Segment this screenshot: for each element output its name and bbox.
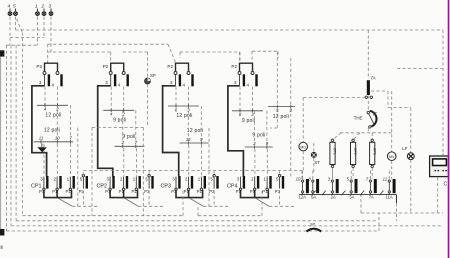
- rail y170 drop to fuse row: [301, 171, 303, 180]
- svg-text:2: 2: [122, 112, 126, 117]
- contact CP3 pole 2: [188, 177, 190, 189]
- bottom bus CP2: [110, 190, 137, 198]
- wire col down x44 group 1: [43, 144, 45, 177]
- wire pin5 column lower: [276, 108, 278, 128]
- bar TA: [367, 80, 370, 95]
- wire col up x201.3 group 3: [200, 106, 202, 141]
- fuse contact F3 (2A): [336, 179, 339, 193]
- enclosure right CP2: [142, 127, 144, 215]
- contact CP2 pole 3: [135, 177, 137, 189]
- contact circle bottom CP1 pole 1: [43, 188, 45, 190]
- LF cross b: [408, 154, 413, 159]
- dashed link y52 segment: [180, 51, 240, 53]
- wire col up x122.8 group 2: [122, 110, 124, 144]
- wire MO drop: [302, 98, 304, 143]
- wire TA right y91: [371, 90, 388, 92]
- wire diagonal to coil 2: [353, 133, 360, 140]
- bus rail y170 common: [83, 170, 302, 172]
- contact bar right unit 1: [60, 74, 62, 86]
- wire CP1 pole4 riser: [82, 171, 84, 176]
- terminal 3: [50, 9, 52, 12]
- wire link below CP1: [72, 205, 99, 207]
- contact circle bottom CP4 pole 1: [239, 188, 241, 190]
- blade between F4 and F5: [360, 191, 364, 196]
- enclosure top CP2: [92, 126, 143, 128]
- riser x438 to box: [437, 177, 439, 213]
- wire diagonal to coil 1: [333, 133, 341, 140]
- wire col down x136.5 group 2: [136, 148, 138, 176]
- svg-text:SP: SP: [150, 73, 156, 78]
- wire TA to THE: [367, 96, 369, 112]
- contact CP4 pole 2: [254, 177, 256, 189]
- THE pivot: [367, 111, 369, 113]
- contact circle top CP3 pole 4: [213, 175, 215, 177]
- contact circle right unit 2: [122, 72, 125, 75]
- enclosure vertical x183: [182, 190, 184, 216]
- enclosure vertical x262: [261, 190, 263, 216]
- contact circle right unit 4: [251, 72, 254, 75]
- bus y133 coils: [340, 132, 392, 134]
- top wire P2 unit 2: [111, 63, 124, 71]
- terminal 4: [9, 9, 11, 12]
- wire contact drop b unit 1: [57, 87, 59, 106]
- wire link below CP3: [203, 205, 230, 207]
- stub x180: [179, 52, 181, 58]
- LF cross a: [408, 154, 413, 159]
- wire fuse end down: [396, 203, 398, 221]
- enclosure vertical x78: [77, 128, 79, 207]
- svg-text:2: 2: [40, 3, 44, 9]
- svg-text:P1: P1: [132, 189, 138, 194]
- wire MV up: [391, 91, 393, 152]
- coil/resistor R3: [371, 139, 373, 141]
- wire LF up: [410, 108, 412, 153]
- left rail 4: [21, 33, 23, 216]
- wire contact drop a unit 3: [175, 87, 177, 107]
- wire SP rail lower: [147, 84, 149, 127]
- contact CP1 pole 1: [43, 177, 45, 189]
- fuse row baseline: [299, 194, 397, 196]
- connector box C: [430, 156, 449, 177]
- svg-text:P1: P1: [262, 189, 268, 194]
- bottom bus CP1: [44, 190, 72, 198]
- svg-text:C: C: [444, 182, 448, 188]
- contact CP4 pole 3: [266, 177, 268, 189]
- contact CP3 pole 3: [200, 177, 202, 189]
- bus y213 right: [361, 212, 443, 214]
- top wire P2 unit 4: [240, 63, 253, 71]
- svg-text:P2: P2: [167, 64, 173, 69]
- contact CP4 pole 1: [240, 177, 242, 189]
- wire link below CP4: [269, 205, 296, 207]
- wire terminal 1 drop: [37, 17, 39, 46]
- wire coil 3 down: [371, 168, 373, 179]
- wire MV down: [391, 161, 393, 179]
- wire col down x188.8 group 3: [188, 145, 190, 176]
- feed wire unit 2: [110, 52, 112, 63]
- contact stem left unit 2: [110, 75, 112, 86]
- bus bottom y221: [16, 220, 378, 222]
- svg-text:1: 1: [35, 3, 38, 9]
- contact circle bottom CP3 pole 1: [175, 188, 177, 190]
- fuse contact F5 (7A): [374, 179, 377, 193]
- indicator ST: [311, 152, 316, 157]
- wire pin3 unit 4 to CP4: [228, 86, 244, 176]
- blade between F2 and F3: [322, 191, 326, 196]
- contact CP1 pole 2: [56, 177, 58, 189]
- dashed link y51 segment: [252, 50, 278, 52]
- wire ST up: [313, 143, 315, 152]
- contact circle bottom CP2 pole 1: [109, 188, 111, 190]
- wire terminal 2 drop: [43, 17, 45, 38]
- bus y97 to TA: [303, 97, 365, 99]
- wire pin2 column lower: [290, 108, 292, 178]
- wire contact drop b unit 4: [252, 87, 254, 111]
- svg-text:5A: 5A: [349, 194, 354, 199]
- fuse contact F4 (5A): [355, 179, 358, 193]
- wire pole4 drop x214.1: [213, 171, 215, 176]
- contact circle bottom CP3 pole 3: [200, 188, 202, 190]
- connector line 12 poli upper unit 3: [168, 105, 199, 107]
- svg-text:MV: MV: [389, 155, 395, 159]
- ST cross a: [312, 153, 316, 157]
- wire col down x70.6 group 1: [70, 144, 72, 177]
- scan mark left bottom: [0, 229, 4, 236]
- svg-text:12 poli: 12 poli: [176, 113, 192, 119]
- wire coil 1 down: [332, 168, 334, 179]
- connector line lower 4: [245, 146, 273, 148]
- svg-text:CP2: CP2: [353, 148, 357, 155]
- contact circle right unit 3: [187, 72, 190, 75]
- connector line lower 1: [34, 141, 73, 143]
- motor MO: [299, 142, 308, 151]
- page edge line: [0, 57, 1, 230]
- bus line y44: [48, 43, 168, 45]
- svg-text:TA: TA: [371, 76, 376, 81]
- THE out circle: [369, 126, 371, 128]
- enclosure bottom segment 2: [198, 215, 262, 217]
- svg-text:ST: ST: [314, 160, 320, 165]
- wire contact drop a unit 2: [110, 87, 112, 111]
- contact circle bottom CP1 pole 2: [56, 188, 58, 190]
- connector line 12 poli upper unit 1: [37, 104, 68, 106]
- wire link below CP2: [138, 205, 165, 207]
- bus line y37: [10, 37, 44, 39]
- wire contact drop a unit 1: [44, 87, 46, 106]
- wire coil 2 down: [352, 168, 354, 179]
- coil/resistor R2: [352, 139, 354, 141]
- contact bar left unit 3: [179, 74, 181, 86]
- circle TA out b: [370, 96, 372, 98]
- wire col up x266.9 group 4: [266, 111, 268, 145]
- wire terminal 4 drop: [9, 17, 11, 46]
- contact circle left unit 1: [43, 72, 46, 75]
- wire diagonal below CP1: [58, 198, 72, 206]
- wire drop x388: [387, 91, 389, 108]
- wire pin5 column upper: [276, 52, 278, 107]
- contact CP3 pole 1: [175, 177, 177, 189]
- circle TA out a: [365, 96, 367, 98]
- contact CP1 pole 3: [69, 177, 71, 189]
- svg-text:9 poli: 9 poli: [242, 118, 255, 124]
- svg-text:LF: LF: [402, 146, 407, 151]
- contact bar left unit 2: [114, 74, 116, 86]
- wire terminal 3 drop: [50, 17, 52, 53]
- wire pin2 column upper: [290, 58, 292, 107]
- contact circle left unit 3: [174, 72, 177, 75]
- svg-text:5: 5: [13, 3, 16, 9]
- wire LF down: [410, 160, 412, 213]
- svg-text:9 poli: 9 poli: [122, 134, 135, 140]
- contact circle bottom CP1 pole 3: [69, 188, 71, 190]
- stub x278: [277, 51, 279, 58]
- wire fuse F3 top: [331, 171, 333, 180]
- wire col up x70.6 group 1: [70, 105, 72, 140]
- riser x361: [360, 195, 362, 213]
- contact CP4 pole 4: [279, 177, 281, 189]
- wire fuse F5 top: [370, 171, 372, 180]
- svg-text:3: 3: [48, 3, 51, 9]
- wire pin3 unit 3 to CP3: [163, 86, 179, 176]
- top wire P2 unit 3: [176, 63, 189, 71]
- wire y108 to LF: [388, 107, 411, 109]
- left rail 2: [10, 45, 12, 226]
- fuse contact F6 (11A): [393, 179, 396, 193]
- enclosure left CP2: [91, 127, 93, 215]
- svg-text:11: 11: [383, 177, 388, 182]
- bus bottom y231: [6, 230, 379, 232]
- wire contact drop b unit 3: [188, 87, 190, 107]
- wire pole4 drop CP2: [148, 191, 150, 207]
- contact circle left unit 4: [238, 72, 241, 75]
- contact bar right unit 4: [255, 74, 257, 86]
- svg-text:CP3: CP3: [372, 148, 376, 155]
- terminal 2: [43, 9, 45, 12]
- svg-text:P2: P2: [36, 64, 42, 69]
- bus bottom y226: [11, 225, 443, 227]
- wire diagonal below CP3: [190, 198, 204, 206]
- svg-text:12A: 12A: [299, 194, 307, 199]
- contact bar left unit 4: [243, 74, 245, 86]
- stub above box: [442, 150, 444, 156]
- bottom bus CP4: [241, 190, 269, 198]
- riser x379: [378, 213, 380, 231]
- THE x mark a: [373, 112, 376, 115]
- contact circle left unit 2: [109, 72, 112, 75]
- contact circle bottom CP4 pole 2: [254, 188, 256, 190]
- enclosure vertical x209: [208, 128, 210, 207]
- connector line 12 poli right: [268, 106, 295, 108]
- fuse contact F2 (5A): [316, 179, 319, 193]
- connector line lower 2: [115, 145, 145, 147]
- wire col up x254.4 group 4: [253, 111, 255, 145]
- contact CP1 pole 4: [82, 177, 84, 189]
- wire col down x57.3 group 1: [56, 144, 58, 177]
- wire SP rail upper: [147, 52, 149, 78]
- svg-text:MO: MO: [300, 145, 306, 149]
- scan mark left top: [0, 50, 4, 56]
- svg-text:P1: P1: [66, 189, 72, 194]
- svg-text:10: 10: [296, 177, 301, 182]
- wire pole4 drop x279.6: [279, 171, 281, 176]
- svg-text:P2: P2: [231, 64, 237, 69]
- svg-text:2A: 2A: [331, 194, 336, 199]
- wire col up x57.3 group 1: [56, 105, 58, 140]
- svg-text:CP1: CP1: [333, 148, 337, 155]
- blade between F5 and F6: [380, 191, 384, 196]
- wire col up x188.3 group 3: [187, 106, 189, 141]
- svg-text:7A: 7A: [369, 194, 374, 199]
- right rail x443: [442, 30, 444, 156]
- lamp SP symbol: [145, 78, 151, 84]
- contact bar right unit 2: [127, 74, 129, 86]
- wire diagonal feed unit P2-3: [168, 44, 176, 62]
- contact circle right unit 1: [56, 72, 59, 75]
- wire contact drop a unit 4: [239, 87, 241, 111]
- wire col down x267.3 group 4: [266, 149, 268, 176]
- wire pole4 drop CP1: [82, 191, 84, 207]
- wire fuse F6 top: [388, 171, 390, 180]
- contact stem left unit 4: [239, 75, 241, 86]
- connector line 9 poli upper unit 2: [103, 109, 134, 111]
- svg-text:THE: THE: [354, 116, 363, 121]
- bus y52 segment 2: [123, 51, 148, 53]
- bus line y52: [48, 51, 111, 53]
- left rail 1: [5, 45, 7, 231]
- wire MO down: [302, 151, 304, 171]
- wire TA feed: [367, 30, 369, 79]
- wire pin3 unit 2 to CP2: [98, 86, 113, 176]
- contact circle bottom CP2 pole 2: [122, 188, 124, 190]
- wire pole4 drop CP4: [279, 191, 281, 207]
- contact stem left unit 3: [175, 75, 177, 86]
- top wire P2 unit 1: [45, 63, 58, 71]
- wire terminal 5 diagonal: [17, 19, 23, 33]
- bus line y45: [6, 44, 38, 46]
- wire diagonal below CP2: [125, 198, 139, 206]
- ST cross b: [312, 153, 316, 157]
- connector line 9 poli upper unit 4: [232, 110, 263, 112]
- wire fuse F4 top: [350, 171, 352, 180]
- wire ST down: [313, 158, 315, 172]
- enclosure bottom segment 1: [22, 215, 183, 217]
- wire contact drop b unit 2: [123, 87, 125, 111]
- wire diagonal below CP4: [256, 198, 269, 206]
- contact circle bottom CP2 pole 3: [135, 188, 137, 190]
- wire col up x135.8 group 2: [135, 110, 137, 144]
- bus line y30: [16, 29, 444, 31]
- contact circle top CP4 pole 4: [278, 175, 280, 177]
- wire fuse F1 top: [302, 171, 304, 180]
- THE blade: [369, 113, 375, 124]
- wire fuse F2 top: [312, 171, 314, 180]
- svg-text:12 poli: 12 poli: [187, 128, 203, 134]
- blade between F3 and F4: [341, 191, 345, 196]
- enclosure vertical x198: [197, 207, 199, 216]
- feed wire unit 1: [47, 44, 49, 63]
- svg-text:P1: P1: [197, 189, 203, 194]
- blade between F1 and F2: [312, 191, 316, 196]
- selector arrow: [41, 144, 43, 147]
- bottom bus CP3: [176, 190, 203, 198]
- contact circle top CP2 pole 4: [148, 175, 150, 177]
- wire col down x123.8 group 2: [123, 148, 125, 176]
- svg-text:SP: SP: [310, 222, 316, 226]
- svg-text:P2: P2: [103, 64, 109, 69]
- feed wire unit 4: [239, 52, 241, 63]
- wire to coil 3: [371, 133, 373, 140]
- feed unit P2-4: [239, 52, 241, 62]
- terminal 1: [37, 9, 39, 12]
- magenta border line: [448, 0, 450, 258]
- wire col down x254.9 group 4: [254, 149, 256, 176]
- wire pole4 drop CP3: [213, 191, 215, 207]
- fuse contact F1 (12A): [306, 179, 309, 193]
- svg-text:9 poli: 9 poli: [113, 117, 126, 123]
- contact CP2 pole 4: [148, 177, 150, 189]
- contact CP3 pole 4: [213, 177, 215, 189]
- svg-text:CP3: CP3: [161, 184, 172, 190]
- connector line lower 3: [180, 142, 209, 144]
- wire pole4 drop x149.1: [148, 171, 150, 176]
- wire after fuse row: [396, 195, 398, 203]
- svg-text:12 poli: 12 poli: [45, 112, 61, 118]
- left rail 3: [15, 45, 17, 221]
- contact CP2 pole 1: [109, 177, 111, 189]
- wire pin3 unit 1 to CP1: [32, 86, 47, 176]
- svg-text:4: 4: [7, 3, 10, 9]
- wire terminal 5 drop: [15, 17, 17, 31]
- contact stem left unit 1: [44, 75, 46, 86]
- contact circle top CP1 pole 4: [82, 175, 84, 177]
- wire THE down: [367, 128, 369, 133]
- coil/resistor R1: [331, 139, 333, 141]
- svg-text:11: 11: [39, 136, 44, 141]
- contact bar left unit 1: [48, 74, 50, 86]
- wire col down x201.6 group 3: [201, 145, 203, 176]
- svg-text:11A: 11A: [386, 194, 393, 199]
- stub y128: [270, 127, 277, 129]
- terminal 5: [15, 9, 17, 12]
- pressure switch SP bottom: [307, 229, 322, 232]
- contact bar right unit 3: [191, 74, 193, 86]
- contact circle bottom CP3 pole 2: [187, 188, 189, 190]
- stub x252: [251, 51, 253, 61]
- svg-text:12 poli: 12 poli: [273, 114, 289, 120]
- contact circle bottom CP4 pole 3: [266, 188, 268, 190]
- wire y68 to right rail: [397, 68, 443, 70]
- contact CP2 pole 2: [123, 177, 125, 189]
